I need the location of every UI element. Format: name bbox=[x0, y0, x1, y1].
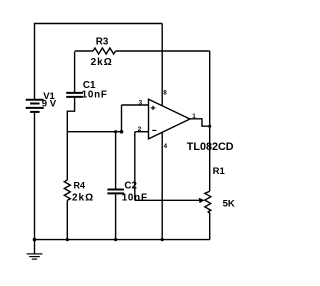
svg-text:R1: R1 bbox=[213, 166, 226, 177]
svg-text:10nF: 10nF bbox=[122, 192, 148, 203]
svg-text:R4: R4 bbox=[74, 180, 86, 190]
battery V1 plates bbox=[26, 100, 44, 112]
wire pin4 drop to ground rail bbox=[161, 132, 163, 239]
junction C2 bottom bbox=[114, 238, 117, 241]
wire node rail to pin3 riser bbox=[67, 105, 121, 132]
svg-text:4: 4 bbox=[164, 143, 168, 150]
svg-text:10nF: 10nF bbox=[82, 90, 108, 101]
svg-text:8: 8 bbox=[163, 90, 167, 97]
resistor R4 zigzag bbox=[64, 180, 70, 200]
potentiometer wiper arrow bbox=[199, 198, 205, 203]
svg-text:1: 1 bbox=[192, 113, 196, 120]
ground symbol bbox=[27, 254, 43, 259]
svg-text:9 V: 9 V bbox=[42, 98, 57, 109]
wire pin2 input bbox=[135, 131, 149, 133]
op-amp plus sign bbox=[151, 106, 156, 110]
svg-text:C2: C2 bbox=[124, 180, 137, 191]
svg-text:TL082CD: TL082CD bbox=[187, 141, 234, 153]
wire C1 bottom jog to node rail bbox=[67, 98, 74, 132]
svg-text:R3: R3 bbox=[96, 36, 109, 47]
junction output to right rail bbox=[208, 125, 211, 128]
potentiometer R1 zigzag bbox=[205, 191, 211, 212]
junction C2 top tap bbox=[114, 130, 117, 133]
svg-text:3: 3 bbox=[139, 100, 143, 107]
op-amp minus sign bbox=[152, 129, 156, 131]
svg-text:5K: 5K bbox=[223, 198, 235, 209]
wire pin8 supply drop bbox=[161, 24, 163, 106]
wire R3 right segment to right rail bbox=[116, 50, 210, 52]
svg-text:2: 2 bbox=[138, 126, 142, 133]
wire C2 top stub bbox=[115, 132, 117, 189]
wire right rail from R3 to pot top bbox=[209, 51, 211, 191]
wire top rail V+ bbox=[35, 23, 163, 25]
wire wiper horizontal bbox=[135, 199, 199, 201]
junction node rail to pin3 riser bbox=[120, 130, 124, 134]
wire pin3 input bbox=[122, 104, 149, 106]
wire C2 bottom stub bbox=[115, 194, 117, 239]
wire R4 top stub bbox=[66, 132, 68, 180]
wire C1 top stub bbox=[74, 52, 76, 92]
svg-text:2kΩ: 2kΩ bbox=[91, 57, 113, 68]
wire left rail battery top bbox=[34, 23, 36, 100]
wire battery bottom to ground rail bbox=[34, 112, 36, 239]
junction R4 bottom bbox=[66, 238, 69, 241]
capacitor C2 plates bbox=[107, 190, 124, 194]
wire R4 bottom stub bbox=[66, 200, 68, 239]
wire ground stub bbox=[34, 240, 36, 254]
wire pot bottom to rail corner bbox=[208, 212, 210, 240]
capacitor C1 plates bbox=[66, 93, 83, 97]
junction pin4 ground bbox=[161, 238, 164, 241]
wire pin2 drop to wiper bbox=[134, 132, 136, 201]
resistor R3 zigzag bbox=[93, 48, 116, 54]
svg-text:2kΩ: 2kΩ bbox=[72, 193, 94, 204]
wire R3 left segment from C1 top corner bbox=[75, 50, 93, 52]
junction battery ground bbox=[33, 238, 37, 242]
op-amp U1 triangle bbox=[149, 99, 190, 139]
wire bottom ground rail bbox=[35, 239, 210, 241]
wire op-amp output bbox=[190, 119, 210, 126]
